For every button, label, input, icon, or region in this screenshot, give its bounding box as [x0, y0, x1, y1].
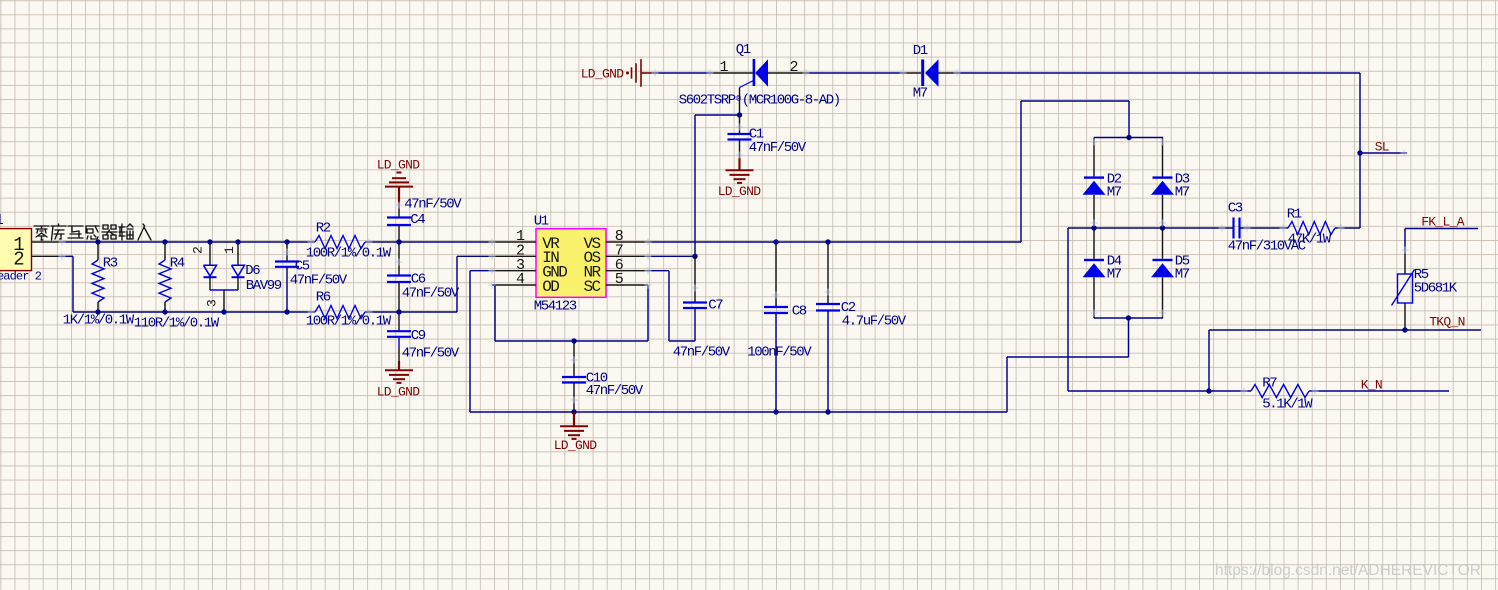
svg-text:47nF/50V: 47nF/50V	[749, 140, 807, 156]
label D3	[1175, 172, 1190, 188]
value M54123	[534, 299, 577, 315]
label C3	[1228, 201, 1243, 217]
junction C2 bottom	[825, 409, 830, 414]
svg-text:OD: OD	[542, 278, 559, 296]
label D5	[1175, 254, 1190, 270]
svg-text:TKQ_N: TKQ_N	[1429, 314, 1465, 329]
wire U1 pin3 to bottom rail	[470, 271, 492, 412]
wire D1 to right corner	[957, 73, 1360, 228]
wire pin2 drop	[62, 256, 73, 312]
diode D1 M7	[903, 59, 957, 86]
capacitor C10	[562, 341, 586, 412]
capacitor C8	[764, 242, 788, 412]
svg-text:47nF/50V: 47nF/50V	[402, 345, 460, 361]
junction bridge top	[1126, 135, 1131, 140]
capacitor C6	[387, 242, 411, 312]
net label FK_L_A	[1421, 215, 1465, 230]
svg-text:M7: M7	[1107, 185, 1122, 201]
net label LD_GND	[377, 385, 421, 400]
label R4	[170, 255, 185, 271]
connector pin 2 line	[32, 255, 63, 257]
svg-text:47nF/50V: 47nF/50V	[290, 273, 348, 289]
label C10	[586, 371, 608, 387]
wire bridge top rail	[1094, 137, 1163, 139]
svg-text:(MCR100G-8-AD): (MCR100G-8-AD)	[742, 93, 840, 109]
svg-text:2: 2	[789, 59, 798, 76]
value R6 100R/1%/0.1W	[306, 314, 392, 330]
svg-text:110R/1%/0.1W: 110R/1%/0.1W	[134, 316, 220, 332]
junction D6 pin2	[207, 239, 212, 244]
junction R3 top	[95, 239, 100, 244]
label U1	[534, 214, 549, 230]
svg-text:®: ®	[736, 95, 741, 104]
wire TKQ_N	[1209, 330, 1481, 391]
svg-text:5: 5	[615, 271, 624, 288]
pin end markers	[652, 70, 659, 77]
resistor R7	[1209, 385, 1449, 398]
svg-text:LD_GND: LD_GND	[718, 184, 762, 199]
junction C8 top	[773, 239, 778, 244]
power port LD_GND below C9	[385, 361, 413, 383]
svg-text:5D681K: 5D681K	[1414, 281, 1458, 297]
svg-text:C9: C9	[411, 328, 426, 344]
value D2 M7	[1107, 185, 1122, 201]
net label K_N	[1361, 377, 1382, 392]
svg-text:R4: R4	[170, 255, 185, 271]
svg-text:47nF/50V: 47nF/50V	[673, 345, 731, 361]
diode D4 M7	[1083, 228, 1106, 318]
svg-text:R1: R1	[1287, 207, 1302, 223]
comment Header 2	[0, 270, 42, 284]
connector pin numbers 1 2	[13, 234, 24, 270]
capacitor C5	[275, 242, 299, 312]
label R6	[316, 290, 331, 306]
wire net2 right	[365, 311, 457, 313]
diode D2 M7	[1083, 138, 1106, 229]
wire bridge mid row	[1068, 227, 1233, 229]
svg-text:U1: U1	[534, 214, 549, 230]
svg-text:BAV99: BAV99	[246, 278, 282, 294]
svg-text:1: 1	[0, 212, 4, 229]
op-amp U1 M54123 body	[536, 229, 606, 298]
junction C10 bottom	[571, 409, 576, 414]
svg-text:R6: R6	[316, 290, 331, 306]
resistor R4	[159, 242, 171, 312]
svg-text:100nF/50V: 100nF/50V	[747, 345, 812, 361]
svg-text:100R/1%/0.1W: 100R/1%/0.1W	[306, 314, 392, 330]
label R2	[316, 221, 331, 237]
svg-text:M54123: M54123	[534, 299, 577, 315]
thyristor Q1	[710, 59, 806, 115]
junction R4 top	[162, 239, 167, 244]
wire Q1 to D1	[806, 72, 903, 74]
value C6 47nF/50V	[402, 286, 460, 302]
svg-text:M7: M7	[1107, 267, 1122, 283]
value R7 5.1K/1W	[1262, 397, 1313, 413]
value C1 47nF/50V	[749, 140, 807, 156]
value C2 4.7uF/50V	[842, 314, 907, 330]
value D3 M7	[1175, 185, 1190, 201]
wire U1 pin7 vertical from Q1 gate	[648, 115, 695, 256]
capacitor C1	[728, 115, 752, 158]
junction C4 C6	[396, 239, 401, 244]
svg-text:1: 1	[222, 246, 237, 254]
junction C5 bottom	[284, 309, 289, 314]
wire Q1 gate to pin7 vertical	[695, 114, 740, 116]
label C4	[410, 212, 425, 228]
watermark	[1215, 562, 1481, 579]
label R7	[1262, 376, 1277, 392]
value C10 47nF/50V	[586, 383, 644, 399]
U1 pins left 1-4	[492, 242, 536, 285]
svg-text:FK_L_A: FK_L_A	[1421, 215, 1465, 230]
svg-text:100R/1%/0.1W: 100R/1%/0.1W	[306, 246, 392, 262]
label D4	[1107, 254, 1122, 270]
net label TKQ_N	[1429, 314, 1465, 329]
capacitor C3	[1234, 218, 1289, 239]
svg-text:M7: M7	[1175, 267, 1190, 283]
capacitor C4	[387, 203, 411, 242]
svg-text:M7: M7	[913, 86, 928, 102]
junction R4 bottom	[162, 309, 167, 314]
svg-text:K_N: K_N	[1361, 377, 1382, 392]
label D1	[913, 43, 928, 59]
svg-text:M7: M7	[1175, 185, 1190, 201]
wire bottom rail step up to bridge	[1007, 318, 1129, 412]
label D6	[245, 263, 260, 279]
svg-text:R3: R3	[103, 255, 118, 271]
label R3	[103, 255, 118, 271]
value 1K/1%/0.1W	[63, 313, 135, 329]
net label LD_GND	[718, 184, 762, 199]
value R1 47K/1W	[1288, 232, 1332, 248]
svg-text:R7: R7	[1262, 376, 1277, 392]
value M7	[913, 86, 928, 102]
junction bridge mid left	[1091, 225, 1096, 230]
net label LD_GND	[554, 438, 598, 453]
value C5 47nF/50V	[290, 273, 348, 289]
resistor R1	[1288, 222, 1360, 235]
junction C10 top	[571, 338, 576, 343]
junction Q1 gate	[737, 112, 742, 117]
junction C5 top	[284, 239, 289, 244]
value 5D681K	[1414, 281, 1458, 297]
svg-text:47nF/50V: 47nF/50V	[402, 286, 460, 302]
U1 pin names	[542, 235, 601, 296]
svg-text:D6: D6	[245, 263, 260, 279]
junction K_N row	[1206, 388, 1211, 393]
svg-text:S602TSRP: S602TSRP	[679, 93, 736, 109]
label R1	[1287, 207, 1302, 223]
junction C6 C9	[396, 309, 401, 314]
wire U1 pin6 to C7 bottom	[648, 271, 695, 341]
value C7 47nF/50V	[673, 345, 731, 361]
diode D5 M7	[1151, 228, 1174, 318]
value S602TSRP (MCR100G-8-AD)	[679, 93, 840, 109]
svg-text:3: 3	[205, 300, 220, 307]
net label LD_GND	[377, 158, 421, 173]
svg-text:47K/1W: 47K/1W	[1288, 232, 1332, 248]
value C3 47nF/310VAC	[1228, 239, 1306, 255]
wire net2 left	[73, 311, 315, 313]
U1 pins right 8-5	[606, 242, 648, 285]
junction D6 pin1	[235, 239, 240, 244]
svg-text:Q1: Q1	[736, 42, 751, 58]
svg-text:LD_GND: LD_GND	[581, 67, 625, 82]
wire net1 left	[62, 241, 315, 243]
junction R5 bottom	[1402, 327, 1407, 332]
label C9	[411, 328, 426, 344]
svg-text:SC: SC	[583, 278, 600, 296]
net label SL	[1375, 139, 1389, 154]
svg-text:https://blog.csdn.net/ADHEREVI: https://blog.csdn.net/ADHEREVICTOR	[1215, 562, 1481, 579]
svg-text:Header 2: Header 2	[0, 270, 42, 284]
capacitor C2	[816, 242, 840, 412]
value D4 M7	[1107, 267, 1122, 283]
label R5	[1414, 267, 1429, 283]
wire bridge bottom rail	[1094, 317, 1163, 319]
diode D6 BAV99	[204, 242, 245, 312]
junction bridge bottom	[1126, 315, 1131, 320]
svg-text:1K/1%/0.1W: 1K/1%/0.1W	[63, 313, 135, 329]
svg-text:R2: R2	[316, 221, 331, 237]
varistor R5 5D681K	[1392, 251, 1415, 330]
label C1	[749, 127, 764, 143]
junction bridge mid right	[1160, 225, 1165, 230]
svg-text:2: 2	[13, 248, 24, 270]
label C8	[792, 304, 807, 320]
wire U1 pin8 to bridge	[648, 101, 1129, 242]
title text 零序互感器输入	[34, 224, 151, 240]
capacitor C7	[683, 256, 707, 341]
net label LD_GND	[581, 67, 625, 82]
junction SL	[1357, 150, 1362, 155]
svg-text:D1: D1	[913, 43, 928, 59]
svg-text:C7: C7	[708, 298, 723, 314]
svg-text:C8: C8	[792, 304, 807, 320]
U1 pin numbers	[516, 228, 624, 288]
junction C2 top	[825, 239, 830, 244]
svg-text:47nF/50V: 47nF/50V	[404, 197, 462, 213]
value C8 100nF/50V	[747, 345, 812, 361]
label C7	[708, 298, 723, 314]
svg-text:C3: C3	[1228, 201, 1243, 217]
label Q1	[736, 42, 751, 58]
designator fragment 1	[0, 212, 4, 229]
value BAV99	[246, 278, 282, 294]
wire net1 right to U1 pin1	[365, 241, 492, 243]
wire top net left of Q1	[654, 72, 710, 74]
wire bottom rail	[470, 411, 1007, 413]
junction D6 pin3	[221, 309, 226, 314]
wire SL stub	[1360, 152, 1407, 154]
svg-text:2: 2	[191, 247, 206, 254]
diode D3 M7	[1151, 138, 1174, 229]
power port LD_GND below C1	[726, 158, 754, 183]
value D5 M7	[1175, 267, 1190, 283]
junction R3 bottom	[95, 309, 100, 314]
wire bridge mid left down to K_N row	[1068, 228, 1209, 391]
power port LD_GND below C10	[560, 412, 588, 439]
label C5	[295, 259, 310, 275]
svg-text:SL: SL	[1375, 139, 1389, 154]
junction U1 pin7	[692, 254, 697, 259]
label C2	[841, 300, 856, 316]
svg-text:4: 4	[516, 271, 525, 288]
power port LD_GND top-left sideways	[626, 59, 654, 87]
svg-text:LD_GND: LD_GND	[377, 385, 421, 400]
pin numbers D6 2 1 3	[191, 246, 238, 307]
svg-text:5.1K/1W: 5.1K/1W	[1262, 397, 1313, 413]
connector P1 Header 2	[0, 229, 32, 271]
label D2	[1107, 172, 1122, 188]
svg-text:C4: C4	[410, 212, 425, 228]
svg-text:1: 1	[719, 59, 728, 76]
capacitor C9	[387, 312, 411, 361]
svg-text:47nF/50V: 47nF/50V	[586, 383, 644, 399]
wire U1 pin4-pin5 loop	[492, 285, 648, 341]
resistor R3	[92, 242, 104, 312]
wire FK_L_A	[1405, 229, 1478, 252]
wire U1 pin2 to net2	[457, 256, 492, 312]
value C4 47nF/50V	[404, 197, 462, 213]
svg-text:4.7uF/50V: 4.7uF/50V	[842, 314, 907, 330]
power port LD_GND top	[385, 173, 413, 204]
junction C8 bottom	[773, 409, 778, 414]
label C6	[411, 272, 426, 288]
svg-text:LD_GND: LD_GND	[377, 158, 421, 173]
svg-text:LD_GND: LD_GND	[554, 438, 598, 453]
connector pin 1 line	[32, 241, 63, 243]
value 110R/1%/0.1W	[134, 316, 220, 332]
value R2 100R/1%/0.1W	[306, 246, 392, 262]
value C9 47nF/50V	[402, 345, 460, 361]
pin numbers Q1 1 2	[719, 59, 798, 76]
